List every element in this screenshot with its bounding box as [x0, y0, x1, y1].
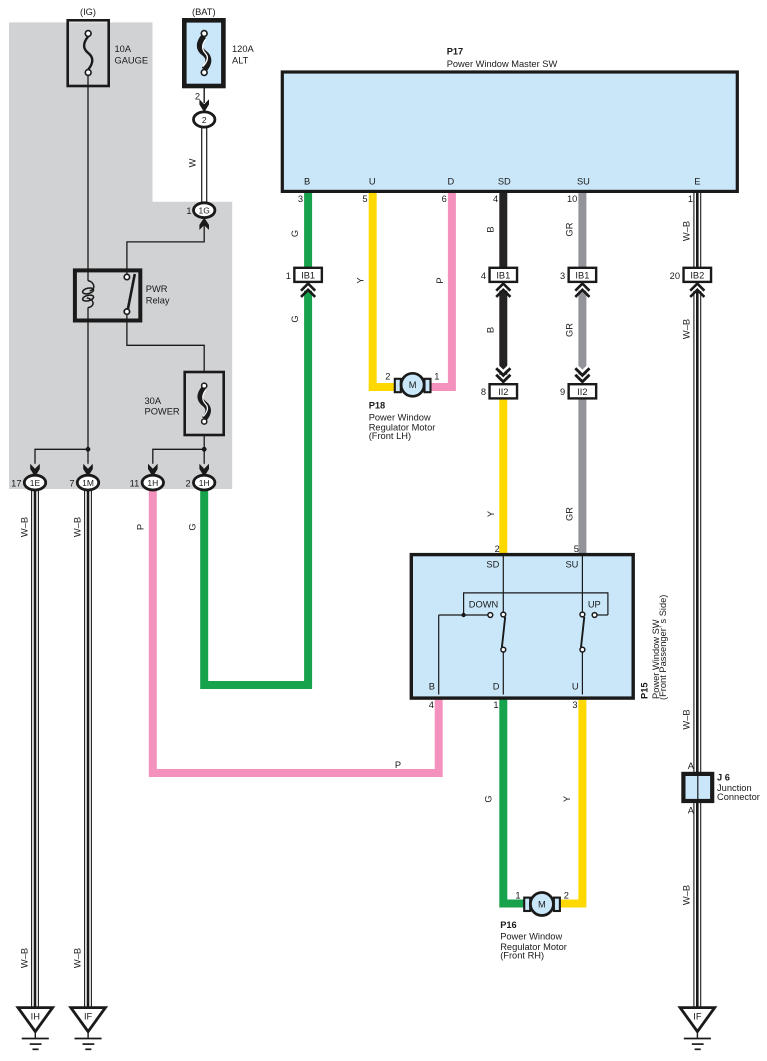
svg-text:120A: 120A — [232, 44, 255, 54]
svg-text:P: P — [395, 760, 401, 770]
svg-text:4: 4 — [493, 194, 498, 204]
svg-text:1: 1 — [186, 206, 191, 216]
wire B black from connector IB1 pin 4 to connector II2 pin 8 — [499, 291, 507, 375]
P17 pin number 1 — [688, 194, 693, 204]
wire Y yellow from P17 pin U to motor P18 pin 2 — [373, 191, 398, 387]
wire Y yellow from connector II2 pin 8 to P15 pin SD — [499, 398, 507, 555]
P15 internal wire B horizontal — [439, 614, 488, 616]
svg-text:(IG): (IG) — [80, 7, 96, 17]
node oval 1H pin 2 — [194, 475, 215, 490]
svg-text:U: U — [572, 682, 579, 692]
pin 3 label at IB1 gray — [560, 271, 565, 281]
svg-text:M: M — [538, 899, 546, 909]
svg-text:W–B: W–B — [681, 221, 691, 241]
wire W white from oval 2 to connector 1G — [202, 127, 207, 203]
node oval 1M — [77, 475, 98, 490]
svg-text:1: 1 — [286, 271, 291, 281]
wire label W-B left 1 lower — [20, 948, 30, 968]
svg-text:POWER: POWER — [145, 406, 180, 416]
P15 junction dot on B wire — [461, 613, 465, 617]
motor P18 pin 1 label — [434, 371, 439, 381]
svg-text:1: 1 — [688, 194, 693, 204]
svg-text:(Front Passenger’ s Side): (Front Passenger’ s Side) — [658, 595, 668, 700]
pin A label above J6 — [688, 761, 695, 771]
wire label W-B left 2 upper — [73, 517, 83, 537]
svg-text:(Front LH): (Front LH) — [369, 431, 411, 441]
svg-text:1: 1 — [515, 891, 520, 901]
svg-text:SU: SU — [565, 560, 578, 570]
svg-text:P16: P16 — [500, 920, 517, 930]
svg-text:1G: 1G — [199, 206, 210, 216]
svg-text:(Front RH): (Front RH) — [500, 951, 544, 961]
svg-text:1: 1 — [434, 371, 439, 381]
svg-text:W–B: W–B — [20, 517, 30, 537]
DOWN switch lower contact — [501, 647, 506, 652]
P15 internal wire U — [581, 652, 583, 695]
wire label W-B left 2 lower — [73, 948, 83, 968]
svg-text:PWR: PWR — [146, 284, 168, 294]
wire label GR on gray below II2 — [565, 507, 575, 521]
P17 pin letter SU — [577, 177, 590, 187]
svg-text:Power Window: Power Window — [500, 932, 562, 942]
svg-text:4: 4 — [429, 700, 434, 710]
svg-text:1: 1 — [493, 700, 498, 710]
svg-text:2: 2 — [186, 479, 191, 489]
P15 pin number 3 — [572, 700, 577, 710]
svg-text:IB1: IB1 — [575, 270, 589, 280]
P15 internal wire SU — [581, 556, 583, 612]
P15 pin number 1 — [493, 700, 498, 710]
fuse 30A POWER — [185, 372, 224, 435]
pin 4 label at IB1 black — [481, 271, 486, 281]
svg-text:G: G — [290, 230, 300, 237]
wire label W-B upper right — [681, 221, 691, 241]
svg-text:P: P — [435, 277, 445, 283]
svg-text:G: G — [290, 315, 300, 322]
svg-text:GR: GR — [565, 507, 575, 521]
wire label GR upper — [565, 222, 575, 236]
wire label P horizontal on pink — [395, 760, 401, 770]
label P15 rotated — [639, 682, 649, 699]
value label 10A GAUGE — [115, 44, 149, 66]
UP switch upper contact — [580, 612, 585, 617]
svg-text:2: 2 — [202, 115, 207, 125]
svg-text:20: 20 — [670, 271, 680, 281]
wire branch to connector 1H pin 11 — [153, 449, 204, 464]
svg-text:Connector: Connector — [717, 792, 760, 802]
svg-text:SU: SU — [577, 177, 590, 187]
svg-text:W–B: W–B — [20, 948, 30, 968]
P15 pin number 2 — [495, 544, 500, 554]
UP switch arm — [581, 617, 584, 648]
connector II2 on black-yellow wire — [490, 384, 518, 398]
svg-text:UP: UP — [588, 600, 601, 610]
svg-text:2: 2 — [385, 371, 390, 381]
svg-text:8: 8 — [481, 387, 486, 397]
P15 pin letter D — [493, 682, 500, 692]
relay PWR — [75, 270, 140, 320]
P15 pin letter SU — [565, 560, 578, 570]
wire W-B from connector IB2 to junction connector J6 — [694, 291, 701, 774]
P17 pin number 5 — [362, 194, 367, 204]
svg-text:30A: 30A — [145, 396, 162, 406]
svg-text:G: G — [187, 523, 197, 530]
ground IH — [18, 1008, 53, 1050]
pin 9 label at II2 — [560, 387, 565, 397]
svg-text:W–B: W–B — [681, 885, 691, 905]
svg-text:B: B — [486, 327, 496, 333]
svg-text:P17: P17 — [447, 47, 464, 57]
svg-text:(BAT): (BAT) — [192, 7, 216, 17]
UP contact circle — [592, 613, 597, 618]
svg-text:E: E — [694, 177, 700, 187]
wire label P pink upper — [136, 524, 146, 530]
svg-text:IH: IH — [31, 1012, 40, 1022]
svg-text:6: 6 — [442, 194, 447, 204]
svg-text:Y: Y — [486, 511, 496, 517]
svg-text:Power Window: Power Window — [369, 412, 431, 422]
component P15 Power Window SW box — [411, 555, 633, 699]
wire label G upper — [290, 230, 300, 237]
P17 pin letter D — [448, 177, 455, 187]
wire from PWR relay switch to fuse 30A POWER — [127, 314, 204, 372]
svg-text:GR: GR — [565, 323, 575, 337]
wire label G on green to P16 — [484, 795, 494, 802]
pin 2 label at BAT fuse — [195, 92, 200, 102]
svg-text:7: 7 — [69, 479, 74, 489]
svg-text:11: 11 — [130, 479, 140, 489]
motor P18 pin 2 label — [385, 371, 390, 381]
P17 pin number 10 — [567, 194, 577, 204]
svg-text:W–B: W–B — [681, 319, 691, 339]
P15 pin number 4 — [429, 700, 434, 710]
svg-text:P15: P15 — [639, 682, 649, 699]
P17 pin letter U — [369, 177, 376, 187]
P15 internal wire SD — [502, 556, 504, 612]
wire GR gray from connector II2 pin 9 to P15 pin SU — [578, 398, 586, 555]
wire label GR lower — [565, 323, 575, 337]
label PWR Relay — [146, 284, 170, 306]
wire label B lower — [486, 327, 496, 333]
svg-text:IF: IF — [84, 1012, 93, 1022]
svg-text:3: 3 — [572, 700, 577, 710]
wire from connector 1G to PWR relay switch — [127, 224, 204, 275]
connector arrow into oval 2 — [199, 86, 209, 112]
svg-text:1H: 1H — [199, 478, 210, 488]
svg-text:2: 2 — [195, 92, 200, 102]
label (BAT) — [192, 7, 216, 17]
svg-text:DOWN: DOWN — [469, 600, 498, 610]
node oval 1H pin 11 — [142, 475, 163, 490]
svg-text:G: G — [484, 795, 494, 802]
svg-text:IB1: IB1 — [301, 270, 315, 280]
label P18 Power Window Regulator Motor (Front LH) — [369, 401, 436, 441]
svg-text:10A: 10A — [115, 44, 132, 54]
label DOWN — [469, 600, 498, 610]
pin A label below J6 — [688, 806, 695, 816]
P15 internal rail connecting DOWN and UP — [464, 593, 608, 615]
wire label G green lower-left — [187, 523, 197, 530]
P15 pin letter U — [572, 682, 579, 692]
svg-text:D: D — [493, 682, 500, 692]
wire label P middle — [435, 277, 445, 283]
svg-text:M: M — [409, 380, 417, 390]
pin 1 label at 1G — [186, 206, 191, 216]
svg-text:1M: 1M — [82, 478, 94, 488]
connector arrow up into oval 1G — [199, 218, 209, 230]
label P17 title — [447, 47, 558, 70]
svg-text:IB2: IB2 — [690, 270, 704, 280]
pin 20 label at IB2 — [670, 271, 680, 281]
svg-text:A: A — [688, 806, 695, 816]
svg-text:W: W — [188, 158, 198, 167]
svg-text:GR: GR — [565, 222, 575, 236]
svg-text:4: 4 — [481, 271, 486, 281]
svg-text:U: U — [369, 177, 376, 187]
svg-text:II2: II2 — [577, 387, 587, 397]
wire label W-B right lower — [681, 885, 691, 905]
wire Y yellow from P15 pin U to motor P16 pin 2 — [557, 698, 582, 904]
wire W-B from junction connector J6 to ground IF — [694, 801, 701, 1008]
value label 30A POWER — [145, 396, 180, 416]
svg-text:W–B: W–B — [73, 948, 83, 968]
svg-text:Power Window Master SW: Power Window Master SW — [447, 59, 558, 69]
wire label W-B left 1 upper — [20, 517, 30, 537]
svg-text:Relay: Relay — [146, 295, 170, 305]
P17 pin number 6 — [442, 194, 447, 204]
svg-text:SD: SD — [486, 560, 499, 570]
wire W-B from P17 pin E to connector IB2 — [694, 191, 701, 268]
P15 internal wire D — [502, 652, 504, 695]
label UP — [588, 600, 601, 610]
wire GR gray from connector IB1 pin 3 to connector II2 pin 9 — [578, 291, 586, 375]
label (IG) — [80, 7, 96, 17]
P15 pin number 5 — [574, 544, 579, 554]
wire G green from connector 1H pin 2 to P17 pin B — [204, 191, 308, 685]
node oval 2 — [194, 112, 215, 127]
wire label W-B below IB2 — [681, 319, 691, 339]
ground IF left — [71, 1008, 106, 1050]
junction dot above 1M connector — [86, 447, 91, 452]
P15 pin letter B — [429, 682, 435, 692]
svg-text:GAUGE: GAUGE — [115, 56, 149, 66]
svg-text:5: 5 — [574, 544, 579, 554]
wire label W-B right above J6 — [681, 709, 691, 729]
label J 6 Junction Connector — [717, 773, 760, 802]
svg-text:P18: P18 — [369, 401, 386, 411]
wire label W — [188, 158, 198, 167]
P15 internal wire B vertical — [438, 615, 440, 695]
connector IB1 on black wire — [490, 268, 518, 297]
wire W-B from connector 1M to ground IF — [85, 490, 92, 1008]
harness shaded area — [9, 22, 232, 489]
connector IB2 on W-B wire — [684, 268, 712, 297]
wire G green from P15 pin D to motor P16 pin 1 — [503, 698, 527, 904]
svg-text:W–B: W–B — [73, 517, 83, 537]
wire from fuse 10A GAUGE to PWR relay coil — [87, 75, 89, 280]
svg-text:P: P — [136, 524, 146, 530]
connector arrow double chevron into II2 pin 8 — [496, 364, 510, 382]
connector arrow into oval 1H pin 11 — [148, 464, 158, 477]
wire B black from P17 pin SD to connector IB1 pin 4 — [499, 191, 507, 268]
connector arrow into oval 1E — [30, 464, 40, 477]
pin 2 label — [186, 479, 191, 489]
P17 pin number 4 — [493, 194, 498, 204]
svg-text:B: B — [429, 682, 435, 692]
svg-text:IB1: IB1 — [496, 270, 510, 280]
label (Front Passenger s Side) rotated — [658, 595, 668, 700]
wire label Y on yellow below II2 — [486, 511, 496, 517]
DOWN switch arm — [502, 617, 505, 648]
label Power Window SW rotated — [651, 619, 661, 699]
P17 pin number 3 — [298, 194, 303, 204]
node oval 1G — [194, 203, 215, 218]
label P16 Power Window Regulator Motor (Front RH) — [500, 920, 567, 961]
svg-text:J 6: J 6 — [717, 773, 730, 783]
svg-text:B: B — [304, 177, 310, 187]
svg-text:9: 9 — [560, 387, 565, 397]
connector IB1 on green wire — [294, 268, 322, 297]
wire P pink from connector 1H pin 11 to P15 pin B — [153, 490, 439, 773]
pin 7 label — [69, 479, 74, 489]
wire label Y left — [356, 277, 366, 283]
svg-text:2: 2 — [564, 891, 569, 901]
svg-text:II2: II2 — [498, 387, 508, 397]
ground IF right — [680, 1008, 715, 1050]
svg-text:SD: SD — [498, 177, 511, 187]
node oval 1E — [24, 475, 45, 490]
svg-text:IF: IF — [693, 1012, 702, 1022]
pin 1 label at IB1 green — [286, 271, 291, 281]
svg-text:5: 5 — [362, 194, 367, 204]
motor P16 pin 2 label — [564, 891, 569, 901]
connector II2 on gray wire — [569, 384, 597, 398]
svg-text:ALT: ALT — [232, 56, 249, 66]
wire branch to connector 1E pin 17 — [35, 449, 88, 464]
UP switch lower contact — [580, 647, 585, 652]
wire label G lower on green — [290, 315, 300, 322]
connector IB1 on gray wire — [569, 268, 597, 297]
connector arrow into oval 1M — [83, 464, 93, 477]
P17 pin letter SD — [498, 177, 511, 187]
wire W-B from connector 1E to ground IH — [32, 490, 39, 1008]
svg-text:A: A — [688, 761, 695, 771]
pin 8 label at II2 — [481, 387, 486, 397]
P15 pin letter SD — [486, 560, 499, 570]
svg-text:Y: Y — [356, 277, 366, 283]
wire from PWR relay coil to connector 1M — [87, 308, 89, 464]
connector arrow into oval 1H pin 2 — [199, 464, 209, 477]
svg-text:1E: 1E — [30, 478, 41, 488]
pin 11 label — [130, 479, 140, 489]
svg-text:17: 17 — [11, 479, 21, 489]
P17 pin letter B — [304, 177, 310, 187]
svg-text:3: 3 — [298, 194, 303, 204]
DOWN switch upper contact — [501, 612, 506, 617]
pin 17 label — [11, 479, 21, 489]
junction dot above 1H connectors — [202, 447, 207, 452]
svg-text:Y: Y — [562, 796, 572, 802]
svg-text:1H: 1H — [147, 478, 158, 488]
connector arrow double chevron into II2 pin 9 — [575, 364, 589, 382]
svg-text:3: 3 — [560, 271, 565, 281]
wire label Y on yellow to P16 — [562, 796, 572, 802]
fuse 120A ALT — [184, 20, 223, 86]
motor P18 Power Window Regulator Motor Front LH — [395, 373, 431, 396]
motor P16 Power Window Regulator Motor Front RH — [524, 893, 560, 916]
svg-text:B: B — [486, 226, 496, 232]
wire from fuse 30A POWER to junction above 1H connectors — [203, 435, 205, 464]
wire label B upper — [486, 226, 496, 232]
UP contact link wire — [597, 614, 608, 616]
junction connector J6 — [683, 774, 712, 801]
wire GR gray from P17 pin SU to connector IB1 pin 3 — [578, 191, 586, 268]
wire P pink from P17 pin D to motor P18 pin 1 — [427, 191, 452, 387]
value label 120A ALT — [232, 44, 255, 66]
svg-text:2: 2 — [495, 544, 500, 554]
P17 pin letter E — [694, 177, 700, 187]
DOWN contact circle — [488, 613, 493, 618]
svg-text:W–B: W–B — [681, 709, 691, 729]
svg-text:10: 10 — [567, 194, 577, 204]
svg-text:D: D — [448, 177, 455, 187]
motor P16 pin 1 label — [515, 891, 520, 901]
component P17 Power Window Master SW — [282, 72, 737, 191]
fuse 10A GAUGE — [68, 20, 109, 86]
